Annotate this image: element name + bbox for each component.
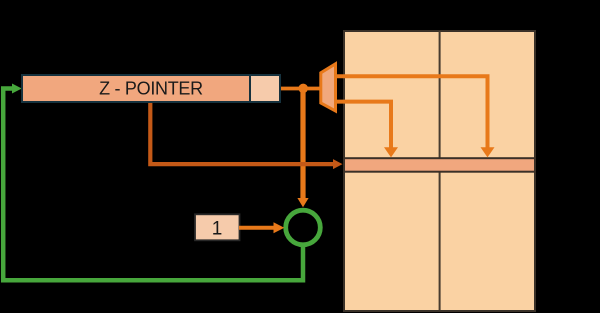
arrowhead orange into adder top <box>297 198 308 207</box>
arrowhead green into Z-pointer <box>12 84 22 94</box>
arrowhead dark orange into page row <box>333 159 343 169</box>
wire (mux output A across memory top) <box>336 76 488 148</box>
mux trapezoid <box>321 64 336 111</box>
wire (bright orange stub from register LSB cell to mux) <box>281 87 323 91</box>
constant 1 box <box>195 214 240 240</box>
program memory block <box>344 31 535 311</box>
arrowhead orange into adder left <box>274 222 285 233</box>
arrowhead orange down into band (right) <box>481 147 495 157</box>
page row band <box>344 158 535 172</box>
wire (dark orange: Z-pointer low bits to page row) <box>150 101 333 164</box>
register LSB cell <box>250 75 280 102</box>
wire (orange from 1 box to adder) <box>239 226 274 230</box>
wire (mux output B) <box>336 102 392 148</box>
svg-text:Z - POINTER: Z - POINTER <box>99 79 203 99</box>
svg-text:1: 1 <box>212 218 223 239</box>
Z-pointer register <box>22 75 250 102</box>
wire (green feedback loop: adder to Z-pointer) <box>3 89 303 281</box>
page/word column divider <box>439 31 441 310</box>
arrowhead orange down into band (left) <box>384 147 398 157</box>
adder circle U1 <box>286 210 321 245</box>
wire (bright orange vertical from junction down to adder) <box>300 89 305 199</box>
node junction dot <box>298 84 308 94</box>
